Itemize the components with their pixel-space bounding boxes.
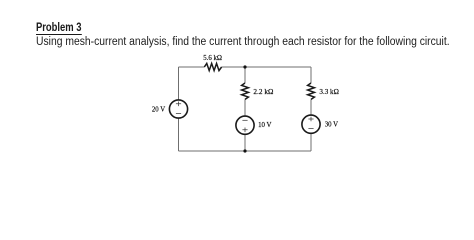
- wire top-left segment: [179, 66, 205, 68]
- wire bottom: [179, 150, 312, 152]
- wire middle branch: node to resistor: [244, 67, 246, 83]
- problem statement text: [36, 36, 450, 49]
- svg-text:30 V: 30 V: [325, 119, 339, 128]
- svg-text:3.3 kΩ: 3.3 kΩ: [319, 87, 339, 96]
- resistor R3 3.3 kOhm zigzag: [308, 83, 315, 99]
- V1 minus sign: [176, 112, 181, 114]
- V2 minus sign: [242, 119, 247, 121]
- wire right branch: top to resistor: [310, 67, 312, 83]
- svg-text:2.2 kΩ: 2.2 kΩ: [253, 87, 273, 96]
- svg-text:5.6 kΩ: 5.6 kΩ: [203, 53, 222, 62]
- wire right branch: source to bottom: [310, 133, 312, 151]
- V2 plus sign: [242, 128, 247, 133]
- wire right branch: resistor to source: [310, 99, 312, 115]
- junction node dot bottom: [243, 149, 246, 152]
- voltage source V3 30V circle: [302, 115, 320, 133]
- resistor R1 5.6 kOhm zigzag: [204, 63, 221, 70]
- wire top-right segment: [222, 66, 311, 68]
- wire middle branch: source to bottom: [244, 134, 246, 151]
- voltage source V2 10V circle: [236, 116, 254, 134]
- V3 plus sign: [308, 117, 313, 122]
- V1 plus sign: [176, 102, 181, 107]
- voltage source V1 20V circle: [169, 100, 187, 118]
- resistor R2 2.2 kOhm zigzag: [242, 83, 249, 99]
- svg-text:20 V: 20 V: [152, 104, 166, 113]
- wire middle branch: resistor to source: [244, 99, 246, 116]
- V3 minus sign: [308, 128, 313, 130]
- svg-text:10 V: 10 V: [258, 120, 272, 129]
- wire left branch upper: [178, 67, 180, 100]
- junction node dot top: [243, 65, 246, 68]
- title: Problem 3: [36, 22, 81, 35]
- wire left branch lower: [178, 118, 180, 151]
